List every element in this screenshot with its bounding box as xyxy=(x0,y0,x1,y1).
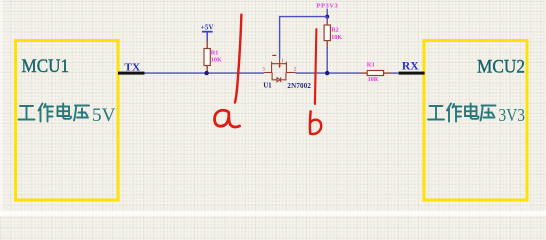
工 xyxy=(19,106,35,120)
作 xyxy=(39,104,54,122)
svg-text:5V: 5V xyxy=(92,105,116,126)
annotation letter a xyxy=(215,110,240,127)
svg-text:10R: 10R xyxy=(368,76,379,83)
压 xyxy=(74,106,89,121)
电 xyxy=(58,104,72,119)
工 xyxy=(428,106,444,120)
port RX xyxy=(399,72,425,75)
transistor U1 xyxy=(264,55,296,82)
node A junction xyxy=(204,71,208,75)
电 xyxy=(465,104,479,119)
wire node C to R2 xyxy=(326,17,328,21)
wire Q1 drain to node B xyxy=(296,72,328,74)
wire TX to node A xyxy=(145,72,207,74)
svg-text:2N7002: 2N7002 xyxy=(287,82,311,90)
svg-text:U1: U1 xyxy=(263,82,272,90)
svg-text:MCU2: MCU2 xyxy=(477,56,525,77)
svg-text:PP3V3: PP3V3 xyxy=(317,2,339,9)
压 xyxy=(481,106,496,121)
wire PP3V3 stub xyxy=(326,9,328,17)
svg-text:MCU1: MCU1 xyxy=(22,56,70,77)
wire node C to gate xyxy=(280,17,328,59)
wire R3 to RX xyxy=(391,72,399,74)
svg-text:10K: 10K xyxy=(331,34,342,41)
svg-text:2: 2 xyxy=(294,67,297,72)
resistor R1 xyxy=(204,41,210,72)
MCU1 voltage text 工作电压5V xyxy=(19,104,90,122)
resistor R3 xyxy=(360,71,391,76)
wire node A to Q1 source xyxy=(207,72,264,74)
annotation letter b xyxy=(310,111,321,134)
wire R2 to node B xyxy=(326,47,328,73)
svg-text:3: 3 xyxy=(262,67,265,72)
svg-text:RX: RX xyxy=(402,60,419,72)
svg-text:+5V: +5V xyxy=(201,24,214,32)
svg-text:TX: TX xyxy=(124,61,140,73)
svg-text:R2: R2 xyxy=(331,27,339,34)
annotation stroke a xyxy=(235,15,241,103)
svg-text:3V3: 3V3 xyxy=(499,105,526,125)
node B junction xyxy=(325,71,329,75)
power +5V xyxy=(201,24,214,41)
wire node B to R3 xyxy=(327,72,359,74)
svg-text:10K: 10K xyxy=(211,56,222,63)
port TX xyxy=(118,72,145,75)
svg-text:R3: R3 xyxy=(367,61,375,68)
annotation stroke b xyxy=(315,29,317,104)
作 xyxy=(447,104,462,122)
resistor R2 xyxy=(324,21,330,47)
node C junction xyxy=(325,15,329,19)
MCU2 voltage text 工作电压3V3 xyxy=(428,104,496,122)
MCU1 block xyxy=(16,41,119,201)
MCU2 block xyxy=(424,41,527,201)
svg-text:R1: R1 xyxy=(211,49,219,56)
